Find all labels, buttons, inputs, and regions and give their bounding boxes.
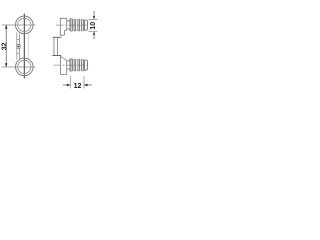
centerline horizontal top circle + extension line	[2, 24, 36, 26]
dim 12: right tail + arrow left	[84, 84, 92, 86]
dim 10: extension bottom	[88, 30, 97, 32]
stem right faint line	[27, 34, 29, 59]
dim 12: extension right	[83, 76, 85, 88]
stem left inner line	[18, 34, 20, 59]
centerline horizontal bottom circle + extension line	[2, 66, 36, 68]
web left line	[53, 37, 55, 55]
top flange bar	[53, 36, 62, 38]
dim 10: extension top	[88, 19, 97, 21]
dim 10: lower tail + arrow up	[93, 35, 95, 40]
web right line	[56, 37, 58, 55]
bottom circle inner	[18, 60, 31, 73]
svg-text:12: 12	[74, 83, 82, 90]
dim 12: extension left	[69, 76, 71, 88]
rung lower	[17, 52, 20, 54]
stem left outer line	[16, 33, 18, 60]
vertical axis line	[23, 14, 25, 79]
dim 10: upper tail + arrow down	[93, 11, 95, 17]
arrow up	[5, 25, 7, 29]
small square latch	[17, 45, 20, 49]
bottom flange line	[52, 55, 61, 57]
bottom dowel (reuse of top dowel shifted down 40px)	[67, 59, 88, 71]
svg-text:32: 32	[1, 42, 8, 50]
arrow down	[5, 63, 7, 67]
bottom dowel centerline	[54, 64, 89, 66]
bottom circle outer	[15, 58, 33, 76]
top dowel centerline	[56, 24, 88, 26]
svg-text:10: 10	[90, 22, 97, 30]
top circle outer	[15, 16, 33, 34]
latch center dot	[18, 46, 19, 47]
top dowel (shank, collar, ribs, tip)	[67, 19, 88, 31]
dim 12: left tail + arrow right	[63, 84, 71, 86]
dimension line 32	[5, 25, 7, 67]
bottom head outline	[61, 56, 67, 75]
top circle inner	[18, 18, 31, 31]
rung upper	[17, 38, 20, 40]
top head outline	[60, 18, 66, 35]
